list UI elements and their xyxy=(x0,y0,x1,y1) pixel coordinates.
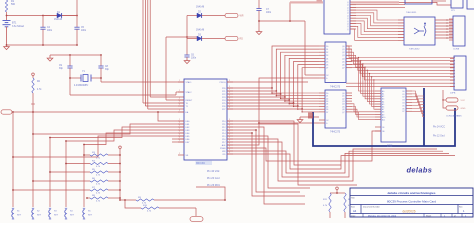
wire A1 to latch U3 xyxy=(276,91,319,96)
svg-text:10PB: 10PB xyxy=(450,93,456,95)
port speaker xyxy=(195,208,197,216)
wire addr hi 3 xyxy=(352,112,375,120)
wire bus extra xyxy=(346,82,455,84)
wire Q1 bus xyxy=(346,49,455,61)
svg-text:KEY: KEY xyxy=(54,215,59,217)
resistor R2 4.7k xyxy=(32,78,34,93)
pin Q3 xyxy=(346,54,352,56)
svg-text:D3: D3 xyxy=(326,55,328,57)
wire xyxy=(6,12,8,16)
wire A3 xyxy=(227,55,319,97)
title block frame xyxy=(350,188,473,217)
wire switch col 3 xyxy=(49,138,51,208)
wire O2 to bus xyxy=(412,97,424,102)
capacitor C5 100n xyxy=(76,0,78,27)
bus stubs xyxy=(308,112,313,114)
pin Q3 xyxy=(346,100,352,102)
pin U5 8 xyxy=(350,23,356,25)
pin J2 4 xyxy=(449,30,453,32)
port EA xyxy=(1,110,12,114)
pin PROG xyxy=(227,81,233,83)
title row2 line xyxy=(350,204,473,206)
svg-text:Q5: Q5 xyxy=(342,61,344,63)
svg-text:RD: RD xyxy=(240,38,244,41)
wire switch col 1 xyxy=(12,112,14,207)
pin mux out 3 xyxy=(435,28,453,30)
pin mark R2 xyxy=(31,103,35,105)
wire U6 out xyxy=(432,0,446,2)
resistor R8 4.7k xyxy=(87,197,90,199)
svg-text:XTAL1: XTAL1 xyxy=(186,81,193,84)
resistor R9 4.7k xyxy=(136,199,154,201)
svg-text:VCC: VCC xyxy=(461,100,466,102)
wire O6 to bus xyxy=(412,108,424,113)
wire addr hi 0 xyxy=(352,104,375,112)
pin D3 xyxy=(319,100,325,102)
pin D7 xyxy=(319,111,325,113)
svg-text:KEY: KEY xyxy=(37,215,42,217)
pin A8 xyxy=(375,111,381,113)
svg-text:1N4148: 1N4148 xyxy=(196,7,205,9)
wire A0 xyxy=(227,46,319,88)
wire switch col 2 xyxy=(32,134,34,207)
pin RD xyxy=(227,153,233,155)
pin Q5 xyxy=(346,106,352,108)
svg-text:delabs: delabs xyxy=(407,166,433,175)
svg-text:Q3: Q3 xyxy=(342,55,344,57)
pin O0 xyxy=(406,90,412,92)
pin Q0 xyxy=(346,92,352,94)
svg-text:Monday, December 06, 2004: Monday, December 06, 2004 xyxy=(368,215,397,218)
svg-text:D6: D6 xyxy=(326,109,328,111)
ground xyxy=(49,57,51,59)
pin OC xyxy=(319,74,325,76)
pin RESET xyxy=(178,99,184,101)
svg-text:Date:: Date: xyxy=(351,215,356,218)
pin A3 xyxy=(375,98,381,100)
svg-text:D1: D1 xyxy=(326,49,328,51)
pin D0 xyxy=(319,92,325,94)
pin J3 5 xyxy=(450,73,454,75)
pin D5 xyxy=(319,106,325,108)
pin D6 xyxy=(319,108,325,110)
pin D7 xyxy=(319,67,325,69)
latch U2 74HC373 box xyxy=(325,42,346,83)
pin U5 7 xyxy=(350,20,356,22)
pin U5 0 xyxy=(350,1,356,3)
bus riser xyxy=(423,88,425,146)
svg-text:A8: A8 xyxy=(382,111,384,114)
pin J3 2 xyxy=(450,64,454,66)
svg-text:KEY: KEY xyxy=(17,215,22,217)
svg-text:74HC373: 74HC373 xyxy=(330,131,341,134)
pin D5 xyxy=(319,61,325,63)
wire A7 to latch U3 xyxy=(302,109,319,112)
capacitor C7 100n xyxy=(258,0,260,9)
svg-text:Pin 24 VCC: Pin 24 VCC xyxy=(433,127,445,129)
svg-text:3.6v NiCad: 3.6v NiCad xyxy=(12,25,24,28)
pin XTAL1 xyxy=(178,81,184,83)
wire A2 to latch U3 xyxy=(281,94,319,98)
resistor R10 4.7k xyxy=(141,207,159,209)
svg-text:Pin 20 Gnd: Pin 20 Gnd xyxy=(207,177,220,180)
wire switch col 4 xyxy=(65,141,67,207)
wire loop 2 xyxy=(227,151,449,173)
pin P27 xyxy=(227,108,233,110)
pin mux in stubs xyxy=(398,19,404,21)
wire u5 mux 2 xyxy=(350,16,404,26)
resistor R12 4.7k xyxy=(344,193,346,212)
wire PROG xyxy=(227,81,308,83)
title row3 line xyxy=(350,213,473,215)
pin P11 xyxy=(227,123,233,125)
pin mux out 0 xyxy=(435,19,453,21)
pin J2 3 xyxy=(449,27,453,29)
pin J3 3 xyxy=(450,67,454,69)
port WR xyxy=(225,13,238,17)
svg-text:WR: WR xyxy=(222,151,226,153)
wire RESET xyxy=(165,37,167,100)
wire pullup rail xyxy=(119,151,121,200)
pin J2 0 xyxy=(449,18,453,20)
wire Q5 bus xyxy=(346,62,455,74)
svg-text:Document Number: Document Number xyxy=(363,205,380,208)
wire P10 loop xyxy=(227,121,341,165)
pin DB7 xyxy=(178,141,184,143)
wire A4 to latch U3 xyxy=(289,100,319,104)
resistor R6 4.7k xyxy=(33,180,90,182)
svg-text:O5: O5 xyxy=(402,105,404,107)
wire DB stubs xyxy=(158,112,184,121)
wire ALE xyxy=(227,78,319,145)
pin Q7 xyxy=(346,67,352,69)
pin DB5 xyxy=(178,135,184,137)
svg-text:A5: A5 xyxy=(382,103,384,106)
svg-text:560: 560 xyxy=(11,3,16,6)
svg-text:2: 2 xyxy=(179,90,180,92)
pin O1 xyxy=(406,93,412,95)
wire P15 loop xyxy=(227,136,310,188)
pin P16 xyxy=(227,138,233,140)
wire O3 to bus xyxy=(412,100,424,105)
pin OE xyxy=(375,130,381,132)
battery BT1 xyxy=(6,16,8,21)
wire u5 mux 5 xyxy=(350,24,404,35)
title row1 line xyxy=(350,195,473,197)
pin D0 xyxy=(319,45,325,47)
pin J2 1 xyxy=(449,21,453,23)
svg-text:GND: GND xyxy=(461,108,466,110)
wire u5 mux 4 xyxy=(350,21,404,32)
wire addr 4 xyxy=(367,70,375,101)
svg-text:ALE: ALE xyxy=(222,144,226,147)
pin P10 xyxy=(227,120,233,122)
svg-text:A4: A4 xyxy=(382,100,384,103)
pin A11 xyxy=(375,119,381,121)
pin DB2 xyxy=(178,126,184,128)
ground xyxy=(258,30,260,32)
svg-text:O6: O6 xyxy=(402,108,404,110)
wire deep loop 2 xyxy=(227,130,300,192)
title sheet xyxy=(362,214,364,218)
svg-text:1N4148: 1N4148 xyxy=(196,30,205,32)
pin P13 xyxy=(227,129,233,131)
svg-text:O4: O4 xyxy=(402,103,404,105)
svg-text:PROG: PROG xyxy=(220,82,226,84)
pin J2 2 xyxy=(449,24,453,26)
pin J2 6 xyxy=(449,36,453,38)
pin A9 xyxy=(375,113,381,115)
wire u5 mux 1 xyxy=(350,13,404,23)
pin J3 9 xyxy=(450,85,454,87)
svg-text:2: 2 xyxy=(179,104,180,106)
pin DB4 xyxy=(178,132,184,134)
pin J2 5 xyxy=(449,33,453,35)
svg-text:O0: O0 xyxy=(402,91,404,93)
wire A5 to latch U3 xyxy=(294,103,320,107)
pin U5 9 xyxy=(350,25,356,27)
pin CE xyxy=(375,126,381,128)
svg-text:1N4148: 1N4148 xyxy=(54,19,63,21)
pin A4 xyxy=(375,100,381,102)
pin P20 xyxy=(227,87,233,89)
pin P26 xyxy=(227,105,233,107)
svg-text:D2: D2 xyxy=(326,52,328,54)
pin U5 3 xyxy=(350,9,356,11)
pin A10 xyxy=(375,116,381,118)
pin D6 xyxy=(319,64,325,66)
resistor R11 4.7k xyxy=(329,193,331,212)
svg-text:2: 2 xyxy=(179,98,180,100)
wire XTAL1 xyxy=(101,81,184,83)
wire Q0 bus xyxy=(346,46,455,58)
bus data navy xyxy=(313,108,455,146)
svg-text:74HC4051: 74HC4051 xyxy=(406,12,417,14)
svg-text:D4: D4 xyxy=(326,58,328,60)
svg-text:Q2: Q2 xyxy=(342,52,344,54)
pin DB6 xyxy=(178,138,184,140)
svg-text:CON8: CON8 xyxy=(453,49,460,51)
resistor R1 560 xyxy=(5,0,7,12)
svg-text:del20026: del20026 xyxy=(402,210,415,214)
wire Q4 bus xyxy=(346,58,455,70)
pin mux out 6 xyxy=(435,37,453,39)
wire xyxy=(186,16,188,56)
wire DB7 xyxy=(13,136,184,157)
svg-text:A1: A1 xyxy=(382,93,384,96)
wire vcc gnd xyxy=(443,90,446,108)
wire O4 to bus xyxy=(412,103,424,108)
wire O0 to bus xyxy=(412,91,424,96)
pin A1 xyxy=(375,93,381,95)
svg-text:WR: WR xyxy=(240,15,244,18)
pin A6 xyxy=(375,106,381,108)
pin J2 7 xyxy=(449,39,453,41)
wire bus D xyxy=(149,0,151,97)
capacitor C6 100n xyxy=(184,54,189,56)
wire u5 mux top2 xyxy=(350,6,405,8)
pin Q1 xyxy=(346,48,352,50)
wire deep loop xyxy=(227,133,305,196)
wire Q7 bus xyxy=(346,68,455,80)
port RD xyxy=(225,36,238,40)
svg-text:O1: O1 xyxy=(402,94,404,96)
pin T1 xyxy=(178,105,184,107)
mux symbol xyxy=(414,28,419,34)
wire O5 to bus xyxy=(412,106,424,111)
svg-text:O3: O3 xyxy=(402,100,404,102)
wire Q6 bus xyxy=(346,65,455,77)
wire loop 3 xyxy=(227,154,455,169)
pin J3 0 xyxy=(450,58,454,60)
memory U4 2732 box xyxy=(381,88,406,142)
svg-text:D1: D1 xyxy=(326,96,328,98)
pin P21 xyxy=(227,90,233,92)
svg-text:Sheet: Sheet xyxy=(426,215,432,218)
svg-text:A6: A6 xyxy=(382,106,384,109)
latch U3 74HC373 box xyxy=(325,90,346,128)
pin O5 xyxy=(406,105,412,107)
svg-text:Q7: Q7 xyxy=(342,68,344,70)
wire A6 to latch U3 xyxy=(298,106,319,109)
pin U5 5 xyxy=(350,15,356,17)
wire bus C xyxy=(147,0,149,109)
pin EA xyxy=(178,111,184,113)
capacitor C8 33p xyxy=(100,55,102,66)
mux U7 74HC4052 box xyxy=(404,17,435,45)
svg-text:KEY: KEY xyxy=(88,215,93,217)
pin J3 8 xyxy=(450,82,454,84)
svg-text:D2: D2 xyxy=(326,98,328,100)
pin A2 xyxy=(375,95,381,97)
pin Q6 xyxy=(346,108,352,110)
svg-text:100n: 100n xyxy=(47,30,53,32)
svg-text:74HC373: 74HC373 xyxy=(330,86,341,89)
pin Q5 xyxy=(346,61,352,63)
svg-text:Rev: Rev xyxy=(459,206,463,208)
svg-text:D7: D7 xyxy=(326,112,328,114)
port VCC xyxy=(446,98,458,102)
wire addr 5 xyxy=(370,74,376,105)
svg-text:A0: A0 xyxy=(382,90,384,93)
VCC pullups xyxy=(119,149,121,151)
pin P25 xyxy=(227,102,233,104)
svg-text:2: 2 xyxy=(179,80,180,82)
pin O7 xyxy=(406,110,412,112)
diode D2 1N4148 xyxy=(187,15,197,17)
svg-text:PSEN: PSEN xyxy=(220,148,226,150)
svg-text:2: 2 xyxy=(179,101,180,103)
svg-text:100n: 100n xyxy=(266,12,272,14)
pin U5 4 xyxy=(350,12,356,14)
switch S1 xyxy=(12,207,14,209)
svg-text:D3: D3 xyxy=(326,101,328,103)
pin P14 xyxy=(227,132,233,134)
pin P15 xyxy=(227,135,233,137)
mux U6 74HC4051 box xyxy=(405,0,432,4)
pin O6 xyxy=(406,107,412,109)
wire A2 xyxy=(227,52,319,94)
wire vcc branch xyxy=(259,20,305,22)
svg-text:O2: O2 xyxy=(402,97,404,99)
pin J3 7 xyxy=(450,79,454,81)
wire A5 xyxy=(227,62,319,104)
svg-text:Q6: Q6 xyxy=(342,109,344,111)
svg-text:D0: D0 xyxy=(326,93,328,95)
svg-text:Q4: Q4 xyxy=(342,58,344,60)
wire addr 0 xyxy=(359,58,376,92)
svg-text:CON10A RAMS: CON10A RAMS xyxy=(446,115,462,118)
svg-text:O7: O7 xyxy=(402,111,404,113)
resistor R4 4.7k xyxy=(66,163,90,165)
wire loop 1 xyxy=(227,142,443,177)
pin DB1 xyxy=(178,123,184,125)
op-amp U1 80C39 MCU box xyxy=(184,79,227,160)
resistor R5 4.7k xyxy=(50,171,90,173)
wire DB4 xyxy=(50,127,184,138)
pin mux out 4 xyxy=(435,31,453,33)
svg-text:Pin 12 Gnd: Pin 12 Gnd xyxy=(433,136,445,138)
pin U5 10 xyxy=(350,28,356,30)
svg-text:Q3: Q3 xyxy=(342,101,344,103)
counter U5 box xyxy=(324,0,350,34)
wire xyxy=(196,187,225,200)
pin Q7 xyxy=(346,111,352,113)
pin G2 xyxy=(319,122,325,124)
wire addr hi 1 xyxy=(352,107,375,115)
wire xyxy=(49,55,51,57)
port GND xyxy=(446,106,458,110)
pin mux out 2 xyxy=(435,25,453,27)
wire addr 6 xyxy=(372,77,375,107)
svg-text:Pin 40 Vdd: Pin 40 Vdd xyxy=(207,170,220,173)
svg-text:delabs circuits and technologi: delabs circuits and technologies xyxy=(388,191,436,195)
svg-text:A11: A11 xyxy=(382,119,385,122)
wire u5 mux 0 xyxy=(350,10,404,20)
pin P23 xyxy=(227,96,233,98)
crystal Y1 4.433619MHz xyxy=(70,77,81,79)
svg-text:A7: A7 xyxy=(382,108,384,111)
svg-text:2732: 2732 xyxy=(387,145,393,148)
pin mux out 5 xyxy=(435,34,453,36)
pin D2 xyxy=(319,51,325,53)
connector J1 xyxy=(451,0,463,8)
switch S5 xyxy=(83,207,85,209)
pin J3 1 xyxy=(450,61,454,63)
switch S4 xyxy=(65,207,67,209)
pin Q4 xyxy=(346,103,352,105)
svg-text:D4: D4 xyxy=(326,104,328,106)
pin XTAL2 xyxy=(178,91,184,93)
VCC xyxy=(32,76,34,78)
wire DB5 xyxy=(66,130,184,141)
pin A7 xyxy=(375,108,381,110)
svg-text:Q1: Q1 xyxy=(342,49,344,51)
wire XTAL2 xyxy=(70,94,176,96)
svg-text:A10: A10 xyxy=(382,116,385,119)
connector J1b corner xyxy=(467,0,474,9)
wire switch col 5 xyxy=(83,145,85,208)
wire EA xyxy=(12,111,184,113)
wire addr 1 xyxy=(361,61,375,94)
pin U5 1 xyxy=(350,4,356,6)
pin A0 xyxy=(375,90,381,92)
wire loop 0 xyxy=(227,139,437,181)
switch S2 xyxy=(32,207,34,209)
pin OC2 xyxy=(319,119,325,121)
pin Q0 xyxy=(346,45,352,47)
wire bus A xyxy=(142,0,144,103)
